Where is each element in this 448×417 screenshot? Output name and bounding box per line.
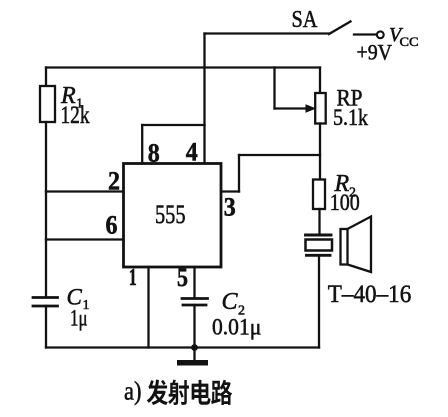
svg-text:CC: CC xyxy=(400,34,419,49)
label 0.01u value of C2 xyxy=(212,315,261,340)
transducer T top electrode plate xyxy=(306,234,332,237)
wire: pin 3 horizontal run to R2 junction xyxy=(239,154,320,156)
wire: left rail bottom from C1 to bottom rail xyxy=(45,306,47,348)
potentiometer RP body xyxy=(315,93,326,124)
RP wiper arrowhead xyxy=(306,105,315,112)
svg-text:5: 5 xyxy=(177,263,188,292)
wire: pin 1 down to bottom rail xyxy=(147,267,149,348)
wire: vertical VCC rail down to pin 4 of 555 xyxy=(203,34,205,164)
caption 发射电路 transmitter circuit xyxy=(147,380,232,406)
switch SA arm xyxy=(329,22,351,35)
capacitor C2 bottom plate xyxy=(183,304,206,307)
resistor R1 body xyxy=(40,86,55,122)
svg-text:100: 100 xyxy=(330,190,360,216)
transducer T bottom electrode plate xyxy=(307,254,331,257)
wire: RP wiper horizontal lead xyxy=(275,107,307,109)
svg-text:12k: 12k xyxy=(61,102,90,129)
pin label 1 xyxy=(129,265,137,291)
svg-text:6: 6 xyxy=(106,211,118,240)
label RP xyxy=(337,86,363,111)
pin label 4 xyxy=(186,138,198,167)
wire: left rail middle segment from R1 to C1 xyxy=(45,122,47,297)
pin label 3 xyxy=(224,193,236,222)
label T-40-16 transducer type xyxy=(328,281,412,308)
wire: RP wiper vertical from upper rail xyxy=(273,68,275,109)
wire: transducer bottom down to bottom rail xyxy=(318,255,320,347)
label VCC xyxy=(389,24,419,49)
label 555 xyxy=(155,200,186,229)
wire: bottom ground rail xyxy=(46,346,319,348)
svg-text:+9V: +9V xyxy=(357,40,393,65)
wire: C2 bottom to bottom rail xyxy=(193,305,195,348)
label R1 xyxy=(60,83,83,112)
wire: RP bottom to R2 top through pin3 junction xyxy=(319,124,321,180)
IC U1 555 timer box xyxy=(124,164,222,268)
ground symbol bar xyxy=(177,360,208,366)
wire: pin 5 down to C2 xyxy=(193,267,195,298)
switch SA fixed contact wire xyxy=(354,33,377,35)
label 12k value of R1 xyxy=(61,102,90,129)
ground symbol stem xyxy=(193,348,195,361)
pin label 6 xyxy=(106,211,118,240)
svg-text:C: C xyxy=(222,289,239,315)
speaker driver rectangle xyxy=(341,229,348,265)
wire: pin 3 output lead xyxy=(221,190,239,192)
svg-text:0.01μ: 0.01μ xyxy=(212,315,261,340)
svg-text:1μ: 1μ xyxy=(70,306,88,331)
wire: left rail top segment xyxy=(45,68,47,87)
wire: pin 2 to left rail xyxy=(46,190,124,192)
pin label 2 xyxy=(108,167,120,196)
caption a) xyxy=(124,377,142,406)
svg-text:5.1k: 5.1k xyxy=(333,105,368,130)
svg-text:SA: SA xyxy=(292,7,319,33)
label +9V xyxy=(357,40,393,65)
label R2 xyxy=(334,171,357,201)
svg-text:1: 1 xyxy=(129,265,137,291)
label C1 xyxy=(67,285,90,314)
wire: top VCC feed from junction to switch SA xyxy=(205,32,330,34)
capacitor C2 top plate xyxy=(182,297,208,300)
label 5.1k value of RP xyxy=(333,105,368,130)
svg-text:4: 4 xyxy=(186,138,198,167)
label SA xyxy=(292,7,319,33)
wire: pin 8 vertical lead xyxy=(141,125,143,164)
svg-text:T–40–16: T–40–16 xyxy=(328,281,412,308)
wire: RP top stem xyxy=(319,68,321,94)
capacitor C1 top plate xyxy=(33,296,58,299)
svg-text:555: 555 xyxy=(155,200,186,229)
svg-text:8: 8 xyxy=(148,139,160,168)
label 100 value of R2 xyxy=(330,190,360,216)
pin label 8 xyxy=(148,139,160,168)
wire: pin 3 vertical jog xyxy=(238,155,240,192)
pin label 5 xyxy=(177,263,188,292)
transducer T crystal body xyxy=(306,240,333,251)
junction dot at ground node xyxy=(191,344,198,351)
speaker horn xyxy=(348,217,372,273)
wire: pin 6 to left rail xyxy=(46,238,124,240)
label C2 xyxy=(222,289,246,319)
wire: pin 8 to pin 4 tie bracket xyxy=(142,124,204,126)
resistor R2 body xyxy=(313,180,325,210)
svg-text:3: 3 xyxy=(224,193,236,222)
wire: R2 to transducer top plate xyxy=(318,209,320,235)
wire: upper horizontal rail from left rail to RP top xyxy=(46,66,320,68)
terminal VCC circle xyxy=(377,31,384,38)
svg-text:a): a) xyxy=(124,377,142,406)
svg-text:2: 2 xyxy=(108,167,120,196)
label 1u value of C1 xyxy=(70,306,88,331)
capacitor C1 bottom plate xyxy=(33,305,58,308)
